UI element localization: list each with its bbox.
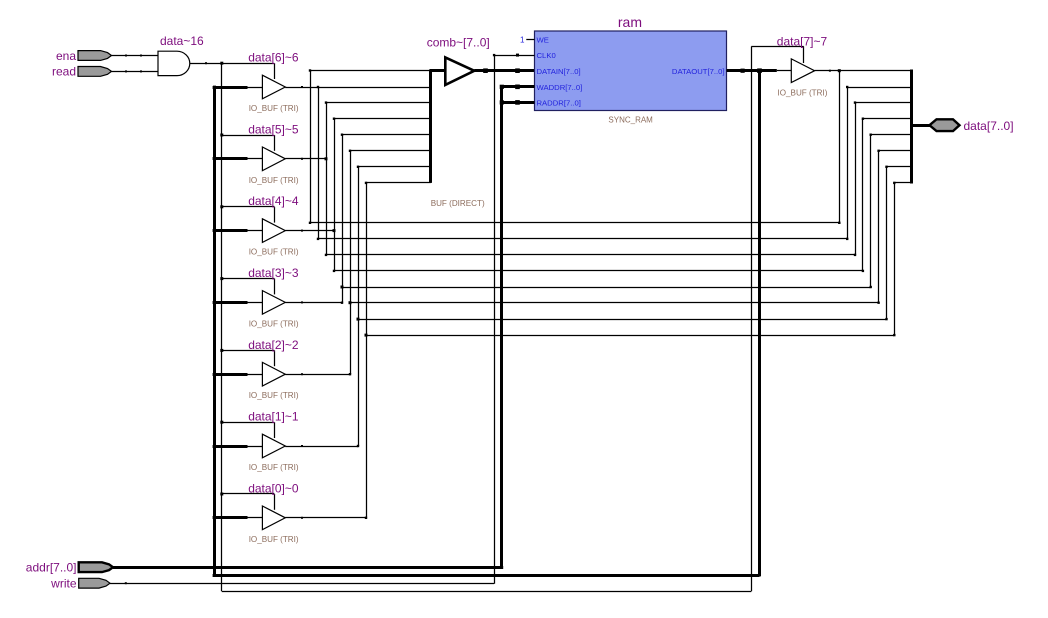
input pin write	[79, 578, 110, 588]
svg-text:IO_BUF (TRI): IO_BUF (TRI)	[249, 104, 299, 113]
wire enable drop to data6 buffer	[274, 63, 276, 79]
wire stub thin into buffer data[1]	[248, 446, 263, 448]
wire right step bit1	[887, 166, 912, 168]
wire left riser bit5	[326, 103, 328, 255]
wire enable drop into data7 buffer	[803, 47, 805, 64]
svg-text:BUF (DIRECT): BUF (DIRECT)	[431, 199, 485, 208]
bus comb input	[429, 69, 445, 72]
junction RADDR tee	[500, 100, 504, 104]
svg-text:write: write	[50, 577, 77, 591]
svg-text:DATAIN[7..0]: DATAIN[7..0]	[537, 67, 581, 76]
wire ena to AND	[112, 55, 159, 57]
RAM block ram	[535, 31, 727, 111]
wire right step bit5	[855, 102, 911, 104]
wire read to AND	[112, 71, 159, 73]
svg-text:data[1]~1: data[1]~1	[248, 410, 299, 424]
svg-text:IO_BUF (TRI): IO_BUF (TRI)	[778, 89, 828, 98]
wire left riser bit1	[358, 167, 360, 446]
bus DATAOUT from RAM	[727, 69, 777, 72]
wire enable tee to data5 buffer	[222, 135, 275, 137]
svg-text:data[0]~0: data[0]~0	[248, 481, 299, 495]
wire output of buffer data[3]	[285, 302, 342, 304]
wire write	[110, 583, 494, 585]
bus stub into buffer data[1]	[213, 445, 248, 448]
tri-state buffer data[2]~2	[262, 362, 285, 386]
wire enable tee to data1 buffer	[222, 422, 275, 424]
wire output of buffer data[4]	[285, 230, 334, 232]
bus RADDR stub	[502, 101, 535, 104]
wire CLK0 from write	[494, 55, 534, 57]
junction WADDR tee	[500, 85, 504, 89]
svg-text:data[5]~5: data[5]~5	[248, 122, 299, 136]
wire right riser bit1	[886, 167, 888, 319]
svg-text:DATAOUT[7..0]: DATAOUT[7..0]	[672, 67, 725, 76]
input pin addr[7..0]	[79, 562, 113, 572]
wire comb step bit2	[350, 150, 431, 152]
wire left riser bit0	[366, 183, 368, 518]
input pin read	[78, 67, 112, 77]
wire right riser bit5	[855, 103, 857, 255]
wire output of buffer data[1]	[285, 446, 358, 448]
svg-text:IO_BUF (TRI): IO_BUF (TRI)	[249, 535, 299, 544]
wire output of buffer data[5]	[285, 158, 326, 160]
wire enable top run to data7 buffer	[751, 46, 803, 48]
junction data[4] output	[333, 229, 336, 232]
tri-state buffer data[0]~0	[262, 506, 285, 530]
tri-state buffer data[5]~5	[262, 147, 285, 171]
wire left riser bit3	[342, 135, 344, 303]
svg-text:WE: WE	[537, 35, 549, 44]
wire stub thin into buffer data[0]	[248, 517, 263, 519]
svg-text:read: read	[52, 65, 76, 79]
wire AND output node data~16	[190, 63, 275, 65]
tri-state buffer data[3]~3	[262, 291, 285, 315]
wire DATAOUT thin into data7 buffer	[777, 70, 792, 72]
wire right step bit4	[863, 118, 911, 120]
wire long horizontal bit5	[326, 254, 855, 256]
wire output of buffer data[2]	[285, 374, 350, 376]
junction data[7] output riser	[838, 69, 841, 72]
bus stub into buffer data[0]	[213, 516, 248, 519]
junction long tee bit0	[365, 334, 368, 337]
junction data~16 fanout	[220, 62, 223, 65]
AND gate data~16	[158, 51, 190, 75]
output pin data[7..0]	[930, 119, 960, 131]
svg-text:ram: ram	[618, 14, 642, 30]
wire right step bit6	[847, 87, 911, 89]
junction long tee bit1	[357, 318, 360, 321]
bus DATAOUT feedback right riser	[758, 71, 761, 577]
svg-text:data~16: data~16	[160, 34, 204, 48]
svg-text:IO_BUF (TRI): IO_BUF (TRI)	[249, 248, 299, 257]
bus stub to output pin	[911, 124, 930, 127]
junction long tee bit2	[349, 301, 352, 304]
svg-text:IO_BUF (TRI): IO_BUF (TRI)	[249, 391, 299, 400]
svg-text:comb~[7..0]: comb~[7..0]	[427, 35, 490, 49]
wire enable tee to data2 buffer	[222, 350, 275, 352]
wire right riser bit4	[862, 119, 864, 271]
junction long tee bit3	[341, 286, 344, 289]
wire long horizontal bit0	[366, 335, 894, 337]
wire right step bit3	[871, 134, 911, 136]
wire enable tee to data3 buffer	[222, 278, 275, 280]
junction data[5] output	[325, 157, 328, 160]
wire right riser bit6	[847, 87, 849, 239]
svg-text:data[7]~7: data[7]~7	[777, 35, 828, 49]
wire left riser bit2	[350, 151, 352, 374]
wire comb step bit7	[310, 70, 431, 72]
svg-text:1: 1	[520, 35, 525, 44]
svg-text:IO_BUF (TRI): IO_BUF (TRI)	[249, 319, 299, 328]
bus DATAOUT feedback bottom run	[213, 574, 760, 577]
tri-state buffer data[1]~1	[262, 434, 285, 458]
tri-state buffer data[4]~4	[262, 219, 285, 243]
wire right riser bit7	[839, 71, 841, 223]
wire left riser bit4	[334, 119, 336, 271]
svg-text:WADDR[7..0]: WADDR[7..0]	[537, 83, 583, 92]
junction CLK0 corner	[493, 54, 495, 56]
wire stub thin into buffer data[5]	[248, 158, 263, 160]
wire left riser bit7	[310, 71, 312, 223]
wire long horizontal bit4	[334, 270, 863, 272]
wire right riser bit3	[870, 135, 872, 287]
svg-text:IO_BUF (TRI): IO_BUF (TRI)	[249, 176, 299, 185]
wire comb step bit1	[358, 166, 431, 168]
wire enable bottom run	[222, 591, 752, 593]
svg-text:data[7..0]: data[7..0]	[964, 119, 1014, 133]
wire stub thin into buffer data[3]	[248, 302, 263, 304]
wire comb step bit0	[366, 182, 431, 184]
wire stub thin into buffer data[6]	[248, 87, 263, 89]
bus stub into buffer data[2]	[213, 373, 248, 376]
wire right step bit2	[879, 150, 911, 152]
bus stub into buffer data[3]	[213, 301, 248, 304]
wire enable tee to data0 buffer	[222, 493, 275, 495]
junction DATAOUT to feedback bus	[757, 68, 762, 73]
bus stub into buffer data[4]	[213, 229, 248, 232]
wire right riser bit2	[878, 151, 880, 303]
wire output of buffer data[0]	[285, 517, 366, 519]
bus output collector vertical	[910, 70, 913, 184]
svg-text:ena: ena	[56, 49, 76, 63]
wire right step bit0	[894, 182, 911, 184]
bus WADDR stub	[502, 85, 535, 88]
buffer comb~[7..0]	[445, 57, 474, 85]
svg-text:addr[7..0]: addr[7..0]	[26, 561, 77, 575]
svg-text:data[4]~4: data[4]~4	[248, 194, 299, 208]
svg-text:data[6]~6: data[6]~6	[248, 51, 299, 65]
svg-text:SYNC_RAM: SYNC_RAM	[608, 116, 653, 125]
wire long horizontal bit6	[318, 238, 847, 240]
wire enable tee to data4 buffer	[222, 206, 275, 208]
bus stub into buffer data[5]	[213, 157, 248, 160]
tri-state buffer data[6]~6	[262, 75, 285, 99]
bus comb output to DATAIN	[474, 69, 534, 72]
tri-state buffer data[7]~7	[791, 59, 814, 83]
wire left riser bit6	[318, 87, 320, 239]
wire long horizontal bit1	[358, 319, 887, 321]
wire long horizontal bit2	[350, 302, 879, 304]
wire long horizontal bit7	[310, 222, 839, 224]
bus addr wire	[113, 566, 503, 569]
wire comb step bit4	[334, 118, 431, 120]
svg-text:CLK0: CLK0	[537, 51, 556, 60]
wire output of buffer data[6]	[285, 87, 431, 89]
svg-text:data[3]~3: data[3]~3	[248, 266, 299, 280]
wire enable vertical distribution	[221, 63, 223, 591]
wire comb step bit3	[342, 134, 431, 136]
svg-text:data[2]~2: data[2]~2	[248, 338, 299, 352]
wire long horizontal bit3	[342, 287, 871, 289]
wire right riser bit0	[894, 183, 896, 335]
wire stub thin into buffer data[4]	[248, 230, 263, 232]
input pin ena	[78, 51, 112, 61]
wire enable right riser	[751, 47, 753, 592]
bus comb collector vertical	[429, 71, 432, 183]
wire comb step bit5	[326, 102, 431, 104]
wire write riser	[494, 55, 496, 584]
bus DATAOUT feedback left vertical	[213, 86, 216, 577]
svg-text:RADDR[7..0]: RADDR[7..0]	[537, 98, 581, 107]
wire output of buffer data[7]	[815, 70, 911, 72]
bus stub into buffer data[6]	[213, 86, 248, 89]
bus addr riser	[500, 87, 503, 569]
svg-text:IO_BUF (TRI): IO_BUF (TRI)	[249, 463, 299, 472]
wire stub thin into buffer data[2]	[248, 374, 263, 376]
